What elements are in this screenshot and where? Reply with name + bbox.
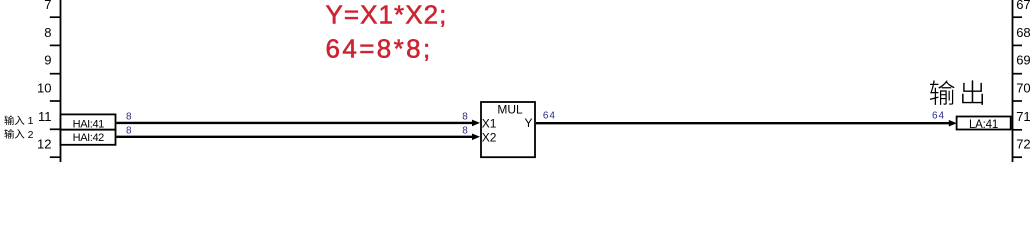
left rail tick rung 12/13	[50, 156, 61, 158]
svg-text:12: 12	[37, 137, 51, 152]
wire W1 (HAI:41 to X1)	[116, 122, 473, 124]
svg-text:8: 8	[462, 126, 468, 137]
left power rail	[60, 0, 62, 162]
right rail tick rung 70/71	[1013, 100, 1023, 102]
svg-text:Y=X1*X2;: Y=X1*X2;	[326, 0, 448, 29]
svg-text:70: 70	[1016, 80, 1030, 95]
left rail tick rung 10/11	[50, 100, 61, 102]
svg-text:64: 64	[543, 111, 556, 122]
svg-text:1: 1	[28, 115, 34, 127]
left rail tick rung 9/10	[50, 73, 61, 75]
right rail tick rung 67/68	[1013, 16, 1023, 18]
svg-text:64: 64	[932, 111, 945, 122]
svg-text:11: 11	[38, 109, 52, 124]
node label 输入1	[4, 115, 33, 127]
svg-text:8: 8	[44, 25, 51, 40]
svg-text:10: 10	[37, 80, 51, 95]
svg-text:8: 8	[126, 112, 132, 123]
wire W2 (HAI:42 to X2)	[116, 136, 473, 138]
svg-text:2: 2	[28, 129, 34, 141]
svg-text:7: 7	[44, 0, 51, 12]
svg-text:Y: Y	[524, 116, 532, 130]
right rail tick rung 69/70	[1013, 73, 1023, 75]
left rail tick rung 7/8	[50, 16, 61, 18]
svg-text:X2: X2	[482, 131, 497, 145]
wire W3 (Y output to LA:41)	[536, 122, 950, 124]
svg-text:LA:41: LA:41	[969, 119, 998, 131]
node label 输入2	[4, 129, 33, 141]
input block HAI:42	[61, 130, 116, 145]
left rail tick rung 8/9	[50, 44, 61, 46]
svg-text:8: 8	[462, 111, 468, 122]
arrowhead W3 at LA:41	[949, 120, 957, 127]
right rail tick rung 68/69	[1013, 44, 1023, 46]
right rail tick rung 72/73	[1013, 156, 1023, 158]
input block HAI:41	[61, 114, 116, 129]
node label 输出	[930, 80, 983, 105]
svg-text:69: 69	[1016, 53, 1030, 68]
svg-text:9: 9	[44, 53, 51, 68]
right rail tick rung 71/72	[1013, 129, 1023, 131]
svg-text:8: 8	[126, 126, 132, 137]
svg-text:64=8*8;: 64=8*8;	[326, 33, 433, 63]
svg-text:MUL: MUL	[497, 102, 523, 116]
arrowhead W2 at pin X2	[472, 134, 480, 141]
svg-text:HAI:42: HAI:42	[73, 132, 105, 144]
right power rail	[1012, 0, 1014, 162]
multiplier block U1 MUL	[481, 102, 535, 157]
output block LA:41	[957, 117, 1011, 130]
left rail tick rung 11/12	[50, 128, 61, 130]
svg-text:68: 68	[1016, 25, 1030, 40]
svg-text:71: 71	[1016, 109, 1030, 124]
arrowhead W1 at pin X1	[472, 120, 480, 127]
svg-text:72: 72	[1016, 137, 1030, 152]
svg-text:X1: X1	[482, 116, 497, 130]
svg-text:67: 67	[1016, 0, 1030, 12]
